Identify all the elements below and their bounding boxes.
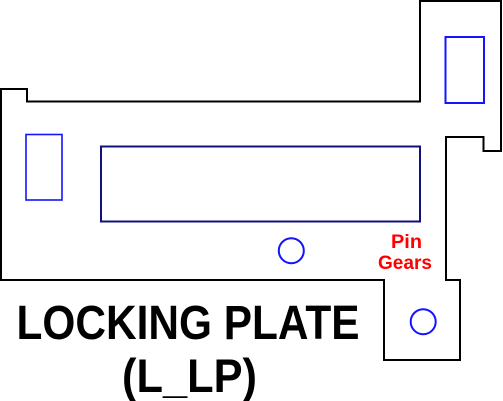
svg-text:Gears: Gears (378, 252, 432, 274)
large center slot rectangle (101, 147, 420, 222)
svg-text:LOCKING PLATE: LOCKING PLATE (17, 297, 360, 350)
top-right slot rectangle (446, 37, 485, 103)
svg-text:(L_LP): (L_LP) (122, 349, 257, 401)
pin hole circle tab (411, 309, 436, 334)
svg-text:Pin: Pin (391, 231, 422, 253)
pin hole circle center (279, 238, 304, 263)
left slot rectangle (26, 135, 62, 201)
